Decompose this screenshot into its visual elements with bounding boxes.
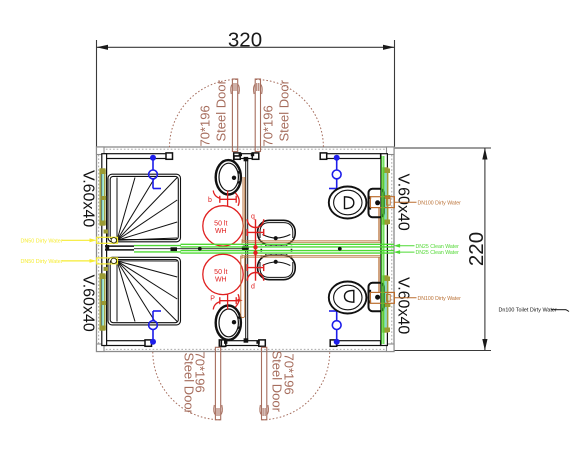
door top-left panel	[231, 79, 240, 152]
yellow drain box top	[62, 237, 118, 243]
wall top-center stub	[237, 154, 256, 159]
svg-text:q: q	[251, 214, 255, 221]
wall bottom-left segment	[105, 341, 146, 346]
svg-text:50 lt: 50 lt	[214, 269, 227, 276]
DN25 label top	[396, 245, 415, 247]
small black joints on top stub	[224, 153, 260, 344]
basin bracket bottom	[221, 340, 225, 347]
blue valve bottom-right (toilet)	[329, 311, 341, 340]
vent grille right bottom	[383, 276, 390, 332]
svg-text:WH: WH	[215, 228, 227, 235]
center toilet bottom	[258, 255, 296, 279]
door bottom-left swing arc	[153, 352, 221, 420]
building outline gray	[97, 147, 395, 352]
svg-text:70*196: 70*196	[261, 105, 276, 146]
brown outlet box bottom toilet	[370, 292, 394, 303]
svg-text:P: P	[210, 296, 215, 303]
arrowheads 320	[97, 45, 109, 50]
svg-text:320: 320	[228, 29, 262, 52]
center thin line	[134, 248, 246, 250]
svg-text:WH: WH	[215, 277, 227, 284]
brown outlet box top toilet	[370, 197, 394, 208]
wall right vertical	[381, 154, 388, 346]
svg-text:b: b	[208, 197, 212, 204]
toilet right bottom	[329, 282, 384, 314]
vent grille left top	[99, 169, 106, 225]
svg-text:Steel Door: Steel Door	[277, 79, 292, 141]
blob at central wall	[242, 246, 249, 251]
svg-text:V.60x40: V.60x40	[80, 275, 97, 332]
red riser center	[247, 219, 263, 280]
blue valve top-right (toilet)	[329, 160, 341, 189]
shower tray top	[108, 174, 181, 242]
basin bottom	[216, 306, 241, 340]
svg-text:50 lt: 50 lt	[214, 220, 227, 227]
blue valve top-left (shower)	[149, 160, 161, 189]
wall bottom-center stub	[221, 341, 261, 346]
door top-right panel	[254, 79, 263, 152]
brown vertical pipe at central wall	[241, 177, 245, 318]
central wall posts	[244, 157, 249, 161]
junction dot right	[338, 247, 342, 251]
svg-text:Steel Door: Steel Door	[214, 79, 229, 141]
center toilet top	[258, 220, 296, 244]
svg-text:DN100 Dirty Water: DN100 Dirty Water	[418, 296, 462, 302]
door bottom-left panel	[214, 347, 223, 420]
dimension 320 top	[97, 40, 395, 147]
wall top-right segment	[327, 154, 381, 159]
water heater bottom	[203, 254, 243, 294]
svg-text:DN100 Dirty Water: DN100 Dirty Water	[418, 200, 462, 206]
olive tick top drain	[104, 230, 109, 234]
black tee at wall divider	[105, 245, 109, 251]
vent grille left bottom	[99, 274, 106, 330]
svg-text:70*196: 70*196	[193, 352, 208, 393]
wall top-left segment	[105, 154, 167, 159]
junction blob at tray edge	[171, 247, 178, 251]
door top-right swing arc	[256, 80, 324, 148]
DN25 label bottom	[396, 251, 415, 253]
toilet right top	[329, 187, 384, 219]
green clean water pipes horizontal	[181, 244, 395, 253]
svg-text:70*196: 70*196	[198, 105, 213, 146]
door bottom-right swing arc	[262, 352, 330, 420]
svg-text:V.60x40: V.60x40	[395, 277, 412, 334]
shower fan lines top	[117, 178, 177, 241]
red trap bottom basin	[213, 294, 239, 310]
water heater top	[203, 206, 243, 246]
svg-text:DN25 Clean Water: DN25 Clean Water	[416, 250, 460, 256]
vent grille right top	[383, 168, 390, 224]
junction dot left	[198, 247, 202, 251]
wall left vertical	[102, 154, 107, 346]
interior walls	[102, 154, 388, 346]
yellow drain box bottom	[62, 258, 118, 264]
svg-text:DN25 Clean Water: DN25 Clean Water	[416, 244, 460, 250]
blue valve bottom-left (shower)	[149, 311, 161, 340]
corner fittings	[97, 147, 395, 352]
DN100 label top	[394, 201, 416, 203]
arrowheads 220	[482, 148, 487, 160]
shower tray bottom	[108, 257, 181, 325]
DN100 label bottom	[394, 297, 416, 299]
shower fan lines bottom	[117, 261, 177, 322]
red trap top basin	[213, 191, 239, 207]
svg-text:V.60x40: V.60x40	[80, 170, 97, 227]
olive tick bottom drain	[104, 267, 109, 271]
roof dashed outline	[99, 149, 392, 349]
svg-text:d: d	[251, 284, 255, 291]
door bottom-right panel	[260, 347, 269, 420]
wall posts	[145, 153, 337, 346]
green vertical pipe right wall	[382, 156, 384, 344]
svg-text:220: 220	[465, 232, 488, 266]
brown riser to bottom toilet	[378, 257, 380, 292]
central partition wall	[246, 159, 248, 341]
wall bottom-right segment	[337, 341, 381, 346]
brown riser to top toilet	[378, 208, 380, 241]
green pipe single runs in tray gap	[134, 246, 181, 252]
tray divider black pipes	[105, 246, 134, 250]
door top-left swing arc	[170, 80, 238, 148]
svg-text:70*196: 70*196	[282, 354, 297, 395]
dimension 220 right	[394, 148, 491, 351]
brown dirty pipes horizontal	[242, 239, 381, 258]
svg-text:Dn100 Toilet Dirty Water: Dn100 Toilet Dirty Water	[499, 308, 557, 314]
svg-text:DN50 Dirty Water: DN50 Dirty Water	[21, 238, 63, 244]
basin bracket top	[234, 156, 241, 160]
svg-text:DN50 Dirty Water: DN50 Dirty Water	[21, 259, 63, 265]
basin top	[216, 160, 241, 194]
